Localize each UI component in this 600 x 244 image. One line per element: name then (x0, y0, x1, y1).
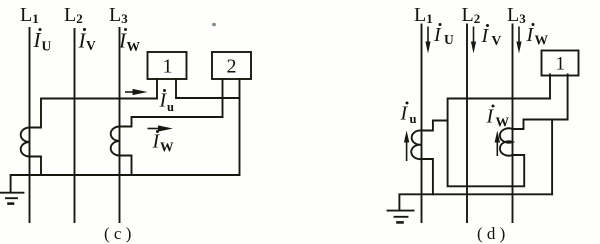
phase line L1 (d) (421, 25, 423, 223)
stray scan speck (212, 23, 216, 27)
svg-text:L1: L1 (20, 4, 39, 26)
box 2 right terminal stub down to bottom wire (239, 79, 241, 175)
svg-text:L3: L3 (109, 4, 128, 26)
up arrow for I_w at CT-L3 (d) (496, 142, 498, 156)
svg-text:I: I (481, 25, 490, 47)
instrument box 1 (c) (148, 52, 187, 79)
current transformer TA1 on L1 (d) (secondary coil, 2 loops) (411, 130, 421, 159)
svg-text:( d ): ( d ) (477, 224, 505, 243)
box 1 right terminal stub (175, 79, 177, 98)
up arrow for I_u at CT-L1 (d) (406, 141, 408, 161)
phase line L2 (c) (74, 29, 76, 222)
svg-text:u: u (167, 100, 174, 114)
label I_W phasor (c) (118, 28, 141, 54)
svg-text:L2: L2 (64, 4, 83, 26)
current arrow on L1 (d) (427, 27, 429, 44)
wire: return vertical from box1-right node down to ground wire (551, 120, 553, 195)
wire: CT3 top step up to I_w wire toward box 2 left terminal (120, 117, 223, 127)
phase line L1 (c) (29, 28, 31, 222)
svg-text:U: U (42, 39, 52, 54)
wire: box 1 right stub, left run, joins CT-L3 top wire (513, 75, 568, 130)
instrument box 2 (c) (212, 52, 251, 79)
svg-text:I: I (33, 28, 42, 52)
svg-text:I: I (400, 103, 409, 125)
label I_U phasor (c) (33, 28, 52, 54)
wire: CT1 bottom to common bottom wire (30, 157, 42, 176)
svg-text:I: I (433, 24, 442, 46)
arrow shaft for I_w current direction (c) (148, 128, 161, 130)
wire: CT1 top to box 1 left terminal (I_u wire) (30, 99, 158, 128)
label I_u on wire (c) (159, 89, 175, 114)
current arrow on L3 (d) (518, 27, 520, 44)
svg-text:W: W (160, 140, 174, 155)
label I_V phasor (c) (78, 28, 97, 53)
phase line L3 (d) (512, 25, 514, 223)
current arrow on L2 (d) (473, 27, 475, 44)
svg-text:I: I (486, 106, 495, 128)
svg-text:( c ): ( c ) (104, 224, 131, 243)
label I_W phasor (d) (526, 23, 549, 48)
svg-text:L3: L3 (507, 4, 526, 26)
grounded return wire (d) (399, 194, 552, 210)
svg-text:u: u (410, 112, 417, 126)
current transformer TA1 on L1 (secondary coil, 2 loops) (21, 128, 30, 157)
wire: box 1 left stub, left run, down-run, bottom run to CT-L3 bottom (448, 75, 550, 187)
svg-text:V: V (86, 38, 96, 53)
label I_w at CT-L3 (d) (486, 105, 510, 130)
ground symbol (c) (0, 192, 24, 194)
svg-text:2: 2 (227, 56, 237, 78)
label I_V phasor (d) (481, 24, 502, 48)
arrowhead I_w (c) (158, 125, 173, 131)
common grounded bottom wire (c) (11, 175, 240, 192)
svg-text:W: W (496, 115, 510, 130)
svg-text:1: 1 (556, 54, 566, 75)
instrument box 1 (d) (542, 51, 579, 76)
wire: box 1 right terminal to box 2 right stub (176, 97, 240, 99)
current transformer TA2 on L3 (d) (secondary coil, 2 loops) (500, 128, 513, 155)
wire: CT3 bottom to common bottom wire (120, 156, 132, 176)
svg-text:V: V (492, 33, 502, 48)
phase line L2 (d) (466, 25, 468, 223)
arrow shaft for I_u current direction (c) (125, 91, 136, 93)
svg-text:L2: L2 (462, 4, 481, 26)
svg-text:1: 1 (163, 56, 173, 78)
box 1 left terminal stub (156, 79, 158, 99)
wire: CT-L1 bottom down to ground wire (422, 159, 433, 194)
label I_w on wire (c) (152, 130, 175, 155)
label I_U phasor (d) (433, 23, 454, 47)
wire: CT-L1 top step to the summing vertical (422, 121, 448, 131)
ground symbol (d) (388, 210, 414, 212)
svg-text:L1: L1 (414, 4, 433, 26)
svg-text:I: I (526, 24, 535, 46)
arrowhead I_u (c) (133, 89, 148, 95)
box 2 left terminal stub (to I_w wire) (222, 79, 224, 117)
svg-text:U: U (444, 32, 454, 47)
svg-text:W: W (535, 33, 549, 48)
phase line L3 (c) (119, 28, 121, 222)
label I_u at CT-L1 (d) (400, 102, 417, 127)
svg-text:W: W (127, 39, 141, 54)
current transformer TA2 on L3 (secondary coil, 2 loops) (111, 127, 120, 156)
